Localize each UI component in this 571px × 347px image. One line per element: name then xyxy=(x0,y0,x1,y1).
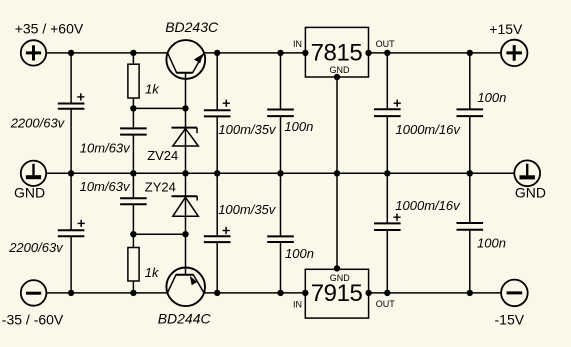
wire column G lower xyxy=(469,173,471,293)
wire column B upper xyxy=(132,53,134,173)
capacitor 1000m/16v lower xyxy=(374,214,401,230)
wire column D lower xyxy=(216,173,218,293)
capacitor 100m/35v lower xyxy=(204,227,231,242)
label 1000m/16v lower xyxy=(395,198,461,213)
wire column B lower xyxy=(132,173,134,293)
zener diode ZV24 xyxy=(172,128,199,146)
svg-text:BD243C: BD243C xyxy=(165,19,219,35)
svg-text:OUT: OUT xyxy=(376,299,396,309)
svg-text:+35 / +60V: +35 / +60V xyxy=(15,20,84,36)
wire column A lower xyxy=(70,173,72,293)
svg-text:IN: IN xyxy=(293,300,302,310)
label 100n input lower xyxy=(285,246,314,261)
label +15V xyxy=(489,21,523,37)
wire 7915 GND pin to rail xyxy=(336,173,338,268)
wire column A upper xyxy=(70,53,72,173)
svg-text:100n: 100n xyxy=(477,90,506,105)
svg-text:10m/63v: 10m/63v xyxy=(80,179,131,194)
svg-text:+15V: +15V xyxy=(489,21,523,37)
wire top rail segment 1 xyxy=(46,52,167,54)
svg-text:-35 / -60V: -35 / -60V xyxy=(2,311,64,327)
label GND left xyxy=(14,185,45,201)
svg-text:7915: 7915 xyxy=(311,280,363,307)
label OUT 7815 xyxy=(376,39,396,49)
capacitor 10m/63v lower xyxy=(120,198,147,204)
wire bottom rail segment 2 xyxy=(204,292,305,294)
wire column F lower xyxy=(386,173,388,293)
wire zener ZY24 lead and transistor Q2 base lead xyxy=(185,173,187,274)
zener diode ZY24 xyxy=(172,196,199,216)
label 1k upper xyxy=(145,81,160,96)
svg-text:10m/63v: 10m/63v xyxy=(80,140,131,155)
wire top rail segment 2 xyxy=(204,52,305,54)
svg-text:GND: GND xyxy=(14,185,45,201)
label 1k lower xyxy=(145,265,160,280)
label 100m/35v lower xyxy=(218,202,277,217)
capacitor 100n output upper xyxy=(457,109,484,116)
terminal GND right xyxy=(514,160,540,186)
capacitor 100n input lower xyxy=(267,236,294,242)
svg-text:GND: GND xyxy=(330,65,351,75)
label IN 7815 xyxy=(293,39,302,49)
resistor 1k upper xyxy=(128,64,139,98)
svg-text:1000m/16v: 1000m/16v xyxy=(396,122,462,137)
svg-text:2200/63v: 2200/63v xyxy=(8,240,64,255)
label 100n output lower xyxy=(477,236,506,251)
label 2200/63v lower xyxy=(8,240,64,255)
label 10m/63v lower xyxy=(80,179,131,194)
wire column E upper xyxy=(280,53,282,173)
label +35 / +60V xyxy=(15,20,84,36)
svg-text:100n: 100n xyxy=(285,246,314,261)
label 100m/35v upper xyxy=(218,122,277,137)
svg-text:1000m/16v: 1000m/16v xyxy=(395,198,461,213)
svg-text:ZY24: ZY24 xyxy=(145,179,176,194)
node bottom rail junctions xyxy=(68,290,473,296)
label 100n input upper xyxy=(284,119,313,134)
capacitor 100n input upper xyxy=(267,110,294,117)
node lower row junctions xyxy=(130,231,189,237)
wire 7815 GND pin to rail xyxy=(336,77,338,173)
svg-text:7815: 7815 xyxy=(311,39,363,66)
resistor 1k lower xyxy=(128,248,139,282)
label ZY24 xyxy=(145,179,176,194)
svg-text:100m/35v: 100m/35v xyxy=(218,202,277,217)
label 10m/63v upper xyxy=(80,140,131,155)
label IN 7915 xyxy=(293,300,302,310)
svg-text:100n: 100n xyxy=(284,119,313,134)
regulator U2 7915 xyxy=(305,269,368,318)
capacitor 10m/63v upper xyxy=(120,128,147,134)
node upper row junctions xyxy=(130,105,189,111)
svg-text:GND: GND xyxy=(330,273,351,283)
label ZV24 xyxy=(147,148,178,163)
transistor Q2 BD244C xyxy=(166,268,205,307)
svg-text:GND: GND xyxy=(515,185,546,201)
label -35 / -60V xyxy=(2,311,64,327)
terminal -15V output xyxy=(501,280,528,307)
node GND rail junctions xyxy=(68,170,473,176)
capacitor 1000m/16v upper xyxy=(374,100,401,117)
svg-text:100m/35v: 100m/35v xyxy=(218,122,277,137)
transistor Q1 BD243C xyxy=(166,40,205,79)
svg-text:100n: 100n xyxy=(477,236,506,251)
label GND right xyxy=(515,185,546,201)
terminal +35/+60V input xyxy=(21,40,46,65)
wire column G upper xyxy=(469,53,471,173)
svg-text:-15V: -15V xyxy=(495,311,525,327)
pin dots 7915 xyxy=(302,265,372,296)
svg-text:1k: 1k xyxy=(145,265,160,280)
label BD244C xyxy=(158,310,212,326)
wire column D upper xyxy=(216,53,218,173)
wire GND rail xyxy=(46,172,514,174)
wire top rail segment 3 xyxy=(369,52,502,54)
terminal +15V output xyxy=(501,40,527,66)
label 2200/63v upper xyxy=(10,115,66,130)
pin dots 7815 xyxy=(302,50,372,81)
terminal -35/-60V input xyxy=(21,280,47,306)
svg-text:1k: 1k xyxy=(145,81,160,96)
wire upper node row xyxy=(133,107,185,109)
regulator U1 7815 xyxy=(305,27,368,77)
label BD243C xyxy=(165,19,219,35)
svg-text:2200/63v: 2200/63v xyxy=(10,115,66,130)
wire column E lower xyxy=(280,173,282,293)
wire lower node row xyxy=(133,233,185,235)
wire bottom rail segment 3 xyxy=(369,292,502,294)
label 100n output upper xyxy=(477,90,506,105)
svg-text:ZV24: ZV24 xyxy=(147,148,178,163)
svg-text:OUT: OUT xyxy=(376,39,396,49)
capacitor 100m/35v upper xyxy=(204,100,231,117)
capacitor 2200/63v upper xyxy=(58,93,85,109)
capacitor 2200/63v lower xyxy=(58,220,85,236)
node top rail junctions xyxy=(68,50,473,56)
label OUT 7915 xyxy=(376,299,396,309)
label -15V xyxy=(495,311,525,327)
svg-text:IN: IN xyxy=(293,39,302,49)
label 1000m/16v upper xyxy=(396,122,462,137)
wire transistor Q1 base lead and zener ZV24 lead xyxy=(185,73,187,174)
wire column F upper xyxy=(386,53,388,173)
wire bottom rail segment 1 xyxy=(46,292,168,294)
capacitor 100n output lower xyxy=(457,223,484,230)
svg-text:BD244C: BD244C xyxy=(158,310,212,326)
terminal GND left xyxy=(21,161,46,186)
